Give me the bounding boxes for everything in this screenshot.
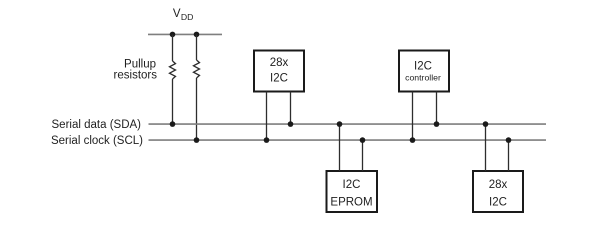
junction dot R2-SCL <box>194 137 200 143</box>
wire SCL bus <box>149 139 547 141</box>
resistor R2 (pullup to SCL) <box>194 34 200 140</box>
svg-text:I2C: I2C <box>489 196 507 208</box>
wire U3 pin to SCL <box>362 140 364 171</box>
wire U1 pin to SCL <box>266 92 268 141</box>
wire U2 pin to SCL <box>412 92 414 141</box>
junction dot U1-SDA <box>288 121 294 127</box>
junction dot U3-SCL <box>360 137 366 143</box>
junction dot U4-SDA <box>483 121 489 127</box>
wire U4 pin to SCL <box>508 140 510 171</box>
junction dot VDD-R2 <box>194 32 200 38</box>
svg-text:I2C: I2C <box>343 179 361 191</box>
junction dot U1-SCL <box>264 137 270 143</box>
svg-text:I2C: I2C <box>270 73 288 85</box>
svg-text:Serial data (SDA): Serial data (SDA) <box>52 119 142 131</box>
junction dot U2-SCL <box>410 137 416 143</box>
wire U1 pin to SDA <box>290 92 292 125</box>
label Pullup resistors <box>114 59 158 82</box>
svg-text:28x: 28x <box>270 57 289 69</box>
resistor R1 (pullup to SDA) <box>170 34 176 124</box>
svg-text:V: V <box>173 8 181 20</box>
junction dot U3-SDA <box>337 121 343 127</box>
device U3 I2C EPROM (bottom left box) <box>327 171 378 212</box>
wire SDA bus <box>149 123 547 125</box>
svg-text:controller: controller <box>405 73 441 83</box>
wire U4 pin to SDA <box>485 124 487 171</box>
wire VDD rail <box>148 33 222 35</box>
svg-text:Serial clock (SCL): Serial clock (SCL) <box>51 135 143 147</box>
device U4 28x I2C (bottom right box) <box>473 171 523 212</box>
svg-text:EPROM: EPROM <box>330 196 372 208</box>
junction dot VDD-R1 <box>170 32 176 38</box>
svg-text:DD: DD <box>181 12 194 22</box>
wire U3 pin to SDA <box>339 124 341 171</box>
junction dot U2-SDA <box>434 121 440 127</box>
device U1 28x I2C (top left box) <box>254 51 304 92</box>
junction dot U4-SCL <box>506 137 512 143</box>
junction dot R1-SDA <box>170 121 176 127</box>
wire U2 pin to SDA <box>436 92 438 125</box>
node VDD label <box>173 8 194 22</box>
svg-text:I2C: I2C <box>414 61 432 73</box>
device U2 I2C controller (top right box) <box>399 51 449 92</box>
svg-text:28x: 28x <box>489 179 508 191</box>
svg-text:resistors: resistors <box>114 70 158 82</box>
